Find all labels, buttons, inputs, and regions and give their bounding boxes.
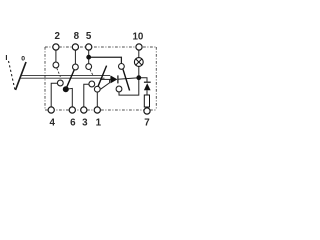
svg-text:0: 0 — [21, 55, 25, 62]
svg-text:2: 2 — [54, 31, 60, 42]
svg-text:6: 6 — [70, 117, 76, 128]
svg-text:I: I — [5, 53, 7, 62]
svg-text:4: 4 — [49, 117, 55, 128]
svg-text:7: 7 — [144, 118, 150, 129]
svg-text:3: 3 — [82, 117, 88, 128]
svg-text:8: 8 — [74, 31, 80, 42]
svg-text:5: 5 — [86, 31, 92, 42]
svg-text:10: 10 — [132, 32, 143, 43]
svg-text:1: 1 — [96, 117, 102, 128]
